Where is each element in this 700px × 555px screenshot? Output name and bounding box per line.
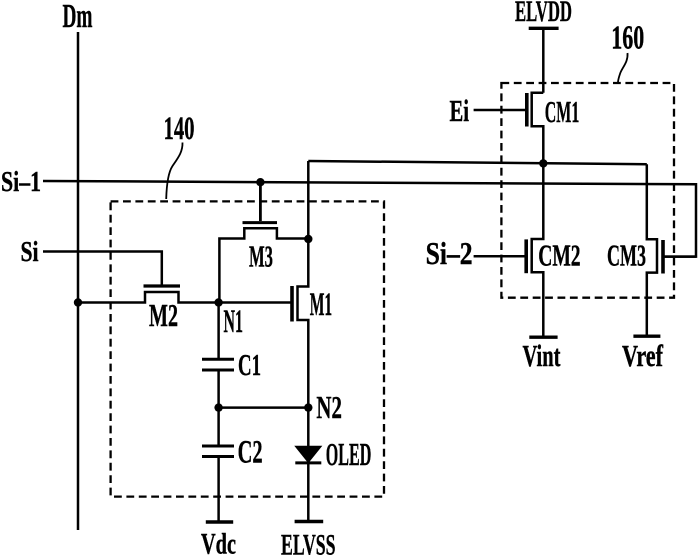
node dot M3 drain / M1 (304, 235, 312, 243)
wire Ei gate lead (474, 109, 526, 112)
svg-text:M1: M1 (310, 287, 333, 323)
transistor M2 gate bar (144, 284, 181, 287)
svg-text:Si–2: Si–2 (426, 235, 473, 271)
wire N2 horizontal (219, 406, 309, 409)
svg-text:OLED: OLED (326, 436, 372, 472)
svg-text:ELVDD: ELVDD (515, 0, 572, 28)
svg-text:N1: N1 (224, 304, 244, 340)
capacitor C1 plates (202, 358, 234, 361)
wire Si-1 scan line (43, 181, 696, 257)
wire M1 channel and drain/source (298, 239, 309, 408)
diode OLED cathode bar (295, 461, 321, 464)
wire OLED anode lead (307, 408, 310, 447)
transistor CM3 gate bar (661, 240, 665, 274)
transistor CM2 gate bar (524, 239, 528, 273)
wire CM3 gate lead (665, 255, 697, 258)
svg-text:C1: C1 (238, 347, 261, 382)
wire vertical node to top bus (307, 161, 310, 239)
transistor M1 gate bar (290, 286, 294, 322)
wire Si line (43, 252, 162, 286)
svg-text:CM1: CM1 (545, 95, 580, 129)
wire top horizontal bus to CM block (308, 161, 647, 164)
svg-text:Ei: Ei (450, 93, 470, 128)
terminal bar ELVSS (295, 520, 324, 523)
capacitor C2 plates (202, 445, 234, 448)
wire CM3 channel path (647, 164, 657, 336)
svg-text:N2: N2 (316, 389, 342, 425)
svg-text:ELVSS: ELVSS (281, 529, 336, 555)
svg-text:M3: M3 (249, 239, 273, 274)
transistor M3 gate bar (243, 221, 278, 224)
wire C1 bottom lead to N2 (217, 371, 220, 445)
node dot N1 (214, 298, 222, 306)
node dot Si-1 / M3 gate (256, 178, 264, 186)
node dot CM1 / bus (539, 159, 547, 167)
wire M3 left contact and channel (219, 228, 308, 302)
svg-text:Dm: Dm (63, 0, 93, 35)
wire M2 row: Dm to N1 with M2 channel (78, 292, 291, 303)
svg-text:CM2: CM2 (538, 239, 580, 273)
wire Dm data line (77, 32, 80, 530)
terminal bar Vref (633, 335, 660, 338)
svg-text:CM3: CM3 (607, 239, 646, 273)
svg-text:M2: M2 (149, 297, 178, 333)
wire C2 bottom lead to Vdc (217, 457, 220, 521)
terminal bar Vdc (206, 520, 233, 523)
diode OLED triangle (295, 446, 321, 462)
dashed box 160 current mirror (501, 83, 674, 298)
wire CM1 channel path (532, 93, 544, 164)
svg-text:C2: C2 (238, 435, 263, 471)
node dot Dm / M2 (74, 298, 82, 306)
dashed box 140 pixel circuit (111, 201, 384, 496)
svg-text:160: 160 (611, 19, 644, 56)
terminal bar ELVDD (529, 27, 559, 30)
wire M3 gate stub (259, 182, 262, 221)
wire OLED cathode lead to ELVSS (307, 463, 310, 521)
wire CM2 channel path (532, 164, 544, 337)
svg-text:Vint: Vint (523, 338, 561, 373)
terminal bar Vint (529, 336, 557, 339)
wire C1 top lead (217, 303, 220, 359)
wire Si-2 gate lead (474, 255, 525, 258)
leader line 140 (166, 143, 182, 200)
svg-text:Si–1: Si–1 (1, 166, 41, 198)
transistor CM1 gate bar (525, 93, 529, 127)
node dot N2 left (214, 403, 222, 411)
svg-text:140: 140 (164, 111, 195, 147)
svg-text:Si: Si (21, 236, 39, 268)
leader line 160 (618, 53, 628, 82)
node dot N2 right (304, 403, 312, 411)
wire ELVDD lead (542, 28, 545, 93)
svg-text:Vdc: Vdc (201, 527, 236, 555)
svg-text:Vref: Vref (622, 338, 663, 373)
